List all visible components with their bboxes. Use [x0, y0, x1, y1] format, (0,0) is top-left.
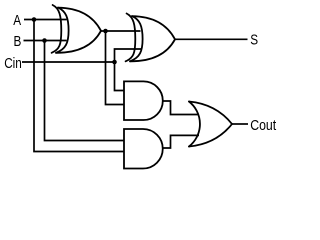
junction dot on XOR1 output [103, 29, 108, 34]
XOR gate U2 ((A xor B) xor Cin = S) [126, 14, 175, 62]
wire B branch down to AND2 [45, 41, 125, 141]
junction dot on B [42, 38, 47, 43]
wire B input [24, 40, 67, 42]
AND gate U3 ((A xor B) and Cin) [124, 81, 163, 120]
junction dot on Cin [112, 60, 117, 65]
wire Cin branch down to AND1 [115, 62, 125, 91]
svg-text:Cout: Cout [250, 117, 276, 133]
wire AND2 output to OR [163, 135, 199, 148]
svg-text:Cin: Cin [4, 55, 22, 72]
svg-text:B: B [14, 32, 22, 49]
wire XOR1 output to XOR2 [101, 30, 141, 32]
svg-text:S: S [250, 31, 258, 48]
AND gate U4 (A and B) [124, 129, 163, 169]
wire Cin input [22, 61, 115, 63]
OR gate U5 (Cout) [189, 102, 232, 147]
svg-text:A: A [13, 11, 21, 28]
wire XOR1 output branch down to AND1 [106, 31, 125, 105]
junction dot on A [32, 17, 37, 22]
wire Cin branch up to XOR2 [115, 49, 142, 62]
wire AND1 output to OR [163, 101, 199, 115]
XOR gate U1 (A xor B) [52, 5, 101, 53]
wire S output [175, 38, 248, 40]
wire A input [24, 19, 67, 21]
wire A branch down to AND2 [34, 20, 125, 152]
wire Cout output [232, 123, 248, 125]
